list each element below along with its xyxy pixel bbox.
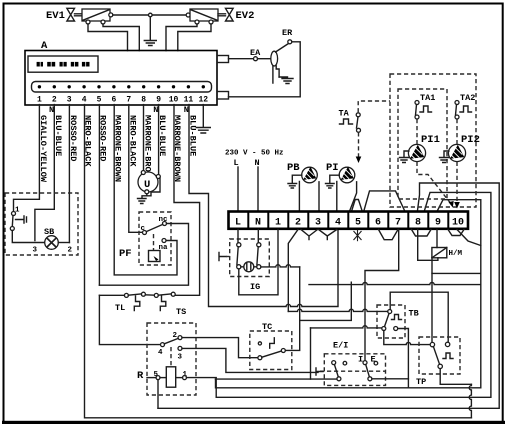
svg-text:E/I: E/I	[333, 341, 348, 351]
svg-text:TA1: TA1	[420, 93, 435, 103]
svg-text:2: 2	[68, 247, 73, 255]
svg-text:3: 3	[178, 354, 183, 362]
svg-text:PI1: PI1	[421, 134, 440, 146]
svg-text:PF: PF	[119, 248, 132, 260]
svg-text:TA2: TA2	[460, 93, 475, 103]
svg-text:N: N	[255, 158, 260, 168]
svg-text:BLU-BLUE: BLU-BLUE	[157, 115, 167, 156]
svg-text:6: 6	[111, 96, 116, 105]
svg-text:8: 8	[141, 96, 146, 105]
svg-text:9: 9	[156, 96, 161, 105]
svg-text:7: 7	[126, 96, 131, 105]
svg-text:3: 3	[315, 218, 321, 229]
svg-text:EV1: EV1	[46, 10, 65, 22]
svg-text:PI2: PI2	[461, 134, 480, 146]
svg-text:PI: PI	[326, 162, 339, 174]
svg-text:5: 5	[355, 218, 361, 229]
svg-text:7: 7	[395, 218, 401, 229]
svg-text:PB: PB	[287, 162, 300, 174]
svg-text:2: 2	[295, 218, 301, 229]
svg-text:TL: TL	[115, 303, 125, 313]
svg-text:9: 9	[435, 218, 441, 229]
svg-text:ROSSO-RED: ROSSO-RED	[98, 115, 108, 161]
svg-text:11: 11	[184, 96, 194, 105]
svg-text:TP: TP	[416, 377, 426, 387]
svg-text:ROSSO-RED: ROSSO-RED	[68, 115, 78, 161]
svg-text:10: 10	[452, 218, 464, 229]
svg-text:R: R	[137, 370, 144, 382]
svg-text:1: 1	[275, 218, 281, 229]
svg-text:4: 4	[82, 96, 87, 105]
svg-text:1: 1	[37, 96, 42, 105]
svg-text:BLU-BLUE: BLU-BLUE	[53, 115, 63, 156]
svg-text:SB: SB	[44, 227, 54, 237]
svg-text:L: L	[235, 218, 241, 229]
svg-text:4: 4	[335, 218, 341, 229]
svg-text:H/M: H/M	[449, 250, 463, 258]
svg-text:MARRONE-BROWN: MARRONE-BROWN	[113, 115, 123, 182]
svg-text:8: 8	[415, 218, 421, 229]
svg-text:10: 10	[169, 96, 179, 105]
svg-text:TA: TA	[339, 109, 350, 119]
svg-text:BLU-BLUE: BLU-BLUE	[187, 115, 197, 156]
svg-text:2: 2	[52, 96, 57, 105]
svg-text:ER: ER	[282, 28, 293, 38]
svg-text:MARRONE-BROWN: MARRONE-BROWN	[172, 115, 182, 182]
svg-text:NERO-BLACK: NERO-BLACK	[83, 115, 93, 167]
svg-text:NERO-BLACK: NERO-BLACK	[127, 115, 137, 167]
svg-text:N: N	[255, 218, 261, 229]
svg-text:5: 5	[97, 96, 102, 105]
svg-text:4: 4	[158, 349, 163, 357]
svg-text:GIALLO-YELLOW: GIALLO-YELLOW	[38, 115, 48, 183]
svg-text:TS: TS	[176, 307, 186, 317]
svg-text:IG: IG	[250, 282, 260, 292]
svg-text:N: N	[49, 105, 54, 115]
svg-text:N: N	[184, 105, 189, 115]
svg-text:6: 6	[375, 218, 381, 229]
svg-text:EV2: EV2	[236, 10, 255, 22]
svg-text:12: 12	[198, 96, 208, 105]
svg-text:TC: TC	[262, 322, 272, 332]
svg-text:3: 3	[67, 96, 72, 105]
svg-text:TB: TB	[409, 309, 419, 319]
svg-text:N: N	[153, 105, 158, 115]
svg-text:3: 3	[33, 247, 38, 255]
svg-text:230 V - 50 Hz: 230 V - 50 Hz	[225, 150, 284, 158]
